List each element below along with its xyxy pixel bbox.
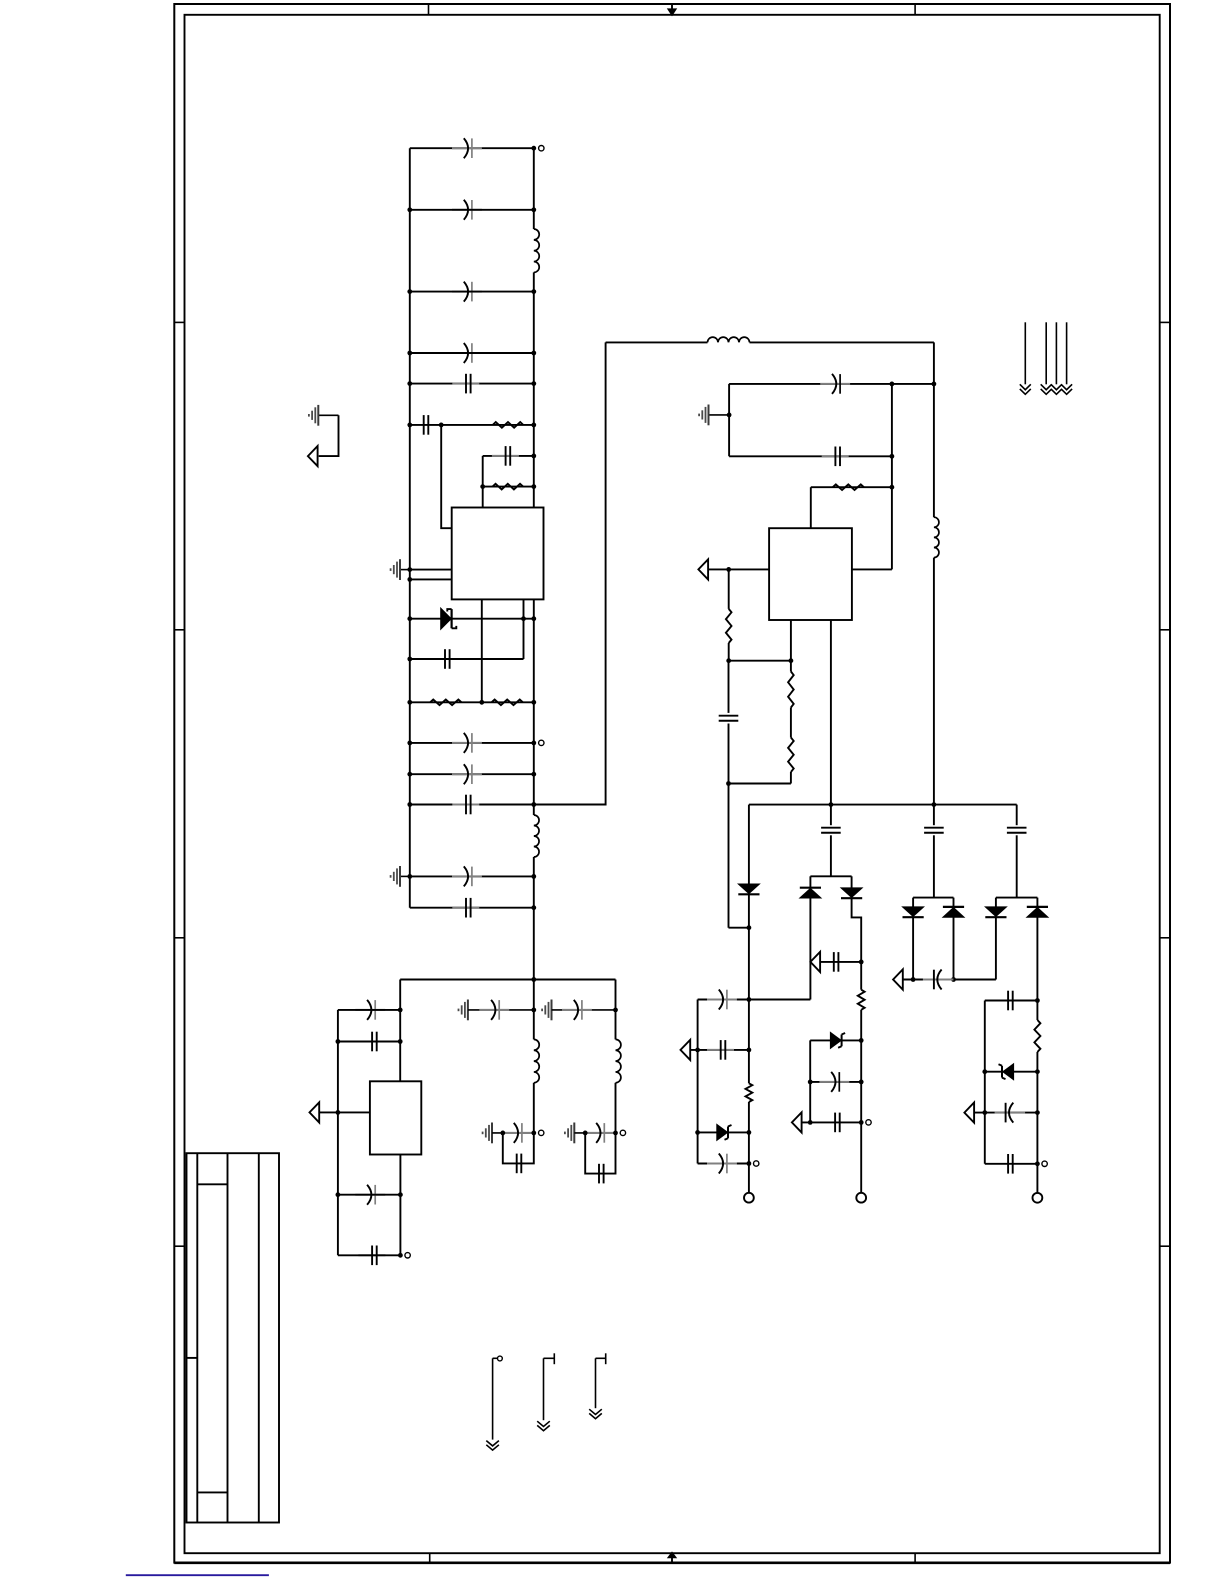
- port P7: [893, 969, 903, 989]
- node R3 left: [407, 700, 412, 705]
- node C4 right: [531, 351, 536, 356]
- capacitor C18: [820, 383, 850, 385]
- wire P3 to U2: [708, 568, 769, 570]
- capacitor CM2: [502, 1132, 532, 1134]
- capacitor C3: [452, 291, 482, 293]
- node C12 left: [407, 874, 412, 879]
- wire col3 rail: [1036, 1001, 1038, 1021]
- wire row portcap2: [903, 979, 996, 981]
- wire row M2: [492, 1132, 534, 1134]
- wire M stem lower: [533, 1083, 535, 1133]
- capacitor CN1: [562, 1009, 592, 1011]
- wire row R2: [483, 486, 534, 488]
- capacitor CM1: [479, 1009, 509, 1011]
- wire row C14: [338, 1009, 400, 1011]
- resistor R2: [493, 484, 524, 490]
- node C15 right: [398, 1039, 403, 1044]
- border tick left 2: [174, 629, 184, 631]
- capacitor C15: [358, 1041, 385, 1043]
- wire row C11: [410, 804, 534, 806]
- capacitor C1: [452, 147, 482, 149]
- wire vert 728 lower: [728, 661, 730, 713]
- node C15 left: [336, 1039, 341, 1044]
- capacitor C24v: [821, 827, 841, 829]
- node C18 a: [890, 382, 895, 387]
- node M2 mid: [500, 1131, 505, 1136]
- capacitor C5: [452, 383, 479, 385]
- wire fork3 L: [995, 898, 997, 907]
- hyperlink underline: [126, 1574, 269, 1576]
- node R6 right: [531, 423, 536, 428]
- wire row C12: [410, 875, 534, 877]
- wire branch748 a: [748, 805, 750, 884]
- capacitor C32: [995, 1112, 1026, 1114]
- node bus main: [531, 977, 536, 982]
- node top-right junction: [531, 146, 536, 151]
- wire row link: [729, 660, 791, 662]
- terminal T6: [1042, 1161, 1047, 1166]
- node C5 right: [531, 381, 536, 386]
- border tick top-right: [914, 4, 916, 15]
- resistor R9v: [746, 1083, 753, 1102]
- wire u3 left rail: [337, 1010, 339, 1255]
- wire fork3 R: [1036, 898, 1038, 907]
- wire U1 stub2: [523, 599, 525, 618]
- wire row C19: [729, 455, 892, 457]
- node C12 right: [531, 874, 536, 879]
- ground GND3: [318, 414, 338, 416]
- node portcap2 a: [911, 977, 916, 982]
- wire stub2 down: [523, 619, 525, 659]
- terminal T2: [539, 740, 544, 745]
- wire branch748 b: [748, 894, 750, 999]
- node C18 b: [932, 382, 937, 387]
- ground GND M1: [467, 1009, 469, 1011]
- off-page arrow A3: [1055, 322, 1057, 384]
- node M2 right: [531, 1131, 536, 1136]
- node C2 right: [531, 207, 536, 212]
- node gnd4: [727, 413, 732, 418]
- wire right rail U2: [933, 342, 935, 517]
- wire fork1 L: [809, 876, 811, 887]
- capacitor C9: [452, 742, 482, 744]
- resistor R3: [430, 700, 461, 706]
- node col2 r3: [859, 1120, 864, 1125]
- diode D4: [800, 887, 821, 889]
- port P1: [308, 446, 318, 466]
- node col2 r2: [859, 1080, 864, 1085]
- wire branch748 c: [748, 1000, 750, 1084]
- node col2 r1: [859, 1038, 864, 1043]
- terminal T5: [866, 1120, 871, 1125]
- node C17 right: [398, 1253, 403, 1258]
- capacitor C27: [834, 1113, 836, 1133]
- wire row col3-3: [974, 1112, 1037, 1114]
- border inner frame: [185, 15, 1160, 1553]
- node C8 left: [407, 657, 412, 662]
- wire vert 790: [790, 661, 792, 672]
- node C11 left: [407, 802, 412, 807]
- node portcap2 b: [951, 977, 956, 982]
- ic U2: [769, 528, 852, 620]
- wire u3 stem: [399, 980, 401, 1082]
- wire N loop: [585, 1133, 615, 1174]
- capacitor C20v: [719, 715, 739, 717]
- wire gnd3 to port: [319, 415, 339, 456]
- wire U2 stub1: [790, 620, 792, 661]
- wire row col1-1: [698, 999, 749, 1001]
- off-page arrow A1: [1024, 322, 1026, 384]
- wire row C18: [729, 383, 934, 385]
- wire lower right bus: [749, 804, 1017, 806]
- wire U1 stub1: [481, 599, 483, 702]
- node R2 left: [480, 484, 485, 489]
- wire row C10: [410, 773, 534, 775]
- node col1 r1: [747, 997, 752, 1002]
- wire row C13: [410, 907, 534, 909]
- capacitor C10: [452, 773, 482, 775]
- wire vert 891: [891, 384, 893, 570]
- wire row col3-1: [985, 1000, 1038, 1002]
- diode D5: [841, 888, 862, 898]
- wire row C16: [338, 1194, 401, 1196]
- node col1-2 a: [695, 1048, 700, 1053]
- capacitor C28v: [924, 827, 944, 829]
- node D1 row a: [521, 616, 526, 621]
- wire right rail mid: [533, 619, 535, 815]
- node C3 left: [407, 289, 412, 294]
- node portcap: [859, 960, 864, 965]
- border bottom emphasis: [174, 1562, 1170, 1565]
- wire fork2 L2: [912, 917, 914, 979]
- wire C11 to right circuit: [534, 342, 606, 804]
- node C7 right: [531, 454, 536, 459]
- wire fork2 stem: [933, 805, 935, 826]
- node C4 left: [407, 351, 412, 356]
- inductor LM: [534, 1039, 539, 1082]
- wire P2 to U3: [319, 1111, 370, 1113]
- wire row col2-2: [810, 1081, 861, 1083]
- wire row C9: [410, 742, 534, 744]
- diode D6 zener: [830, 1032, 841, 1048]
- node C13 right: [531, 905, 536, 910]
- ground GND N1: [551, 1009, 553, 1011]
- wire row portcap: [820, 961, 861, 963]
- wire diode row: [410, 618, 534, 620]
- wire fork2 L: [912, 898, 914, 907]
- wire N stem upper: [615, 980, 617, 1040]
- node N2 right: [613, 1131, 618, 1136]
- wire U1 pin a: [410, 569, 452, 571]
- diode D7: [903, 907, 924, 917]
- stub S3 chevrons: [589, 1409, 602, 1414]
- ground GND M2: [491, 1132, 493, 1134]
- node C16 right: [398, 1192, 403, 1197]
- capacitor C17: [358, 1254, 385, 1256]
- node P2 rail: [336, 1110, 341, 1115]
- diode D1 schottky: [441, 608, 452, 629]
- node col1 r4: [747, 1161, 752, 1166]
- inductor L3: [708, 337, 750, 342]
- wire row col1-3: [698, 1131, 749, 1133]
- node pin a: [407, 567, 412, 572]
- node C19 right: [890, 454, 895, 459]
- capacitor C23: [707, 1163, 737, 1165]
- node R3R4 mid: [479, 700, 484, 705]
- capacitor C31: [1007, 991, 1009, 1011]
- wire fork3 bar: [996, 897, 1038, 899]
- capacitor C22: [707, 1049, 734, 1051]
- terminal T1: [539, 146, 544, 151]
- diode D2: [738, 884, 759, 894]
- node R6 left: [407, 423, 412, 428]
- border tick left 1: [174, 321, 184, 323]
- resistor R10v: [858, 990, 865, 1010]
- wire U2 top pin: [810, 487, 812, 528]
- ground GND2: [400, 875, 410, 877]
- node M1: [531, 1008, 536, 1013]
- connector J2: [856, 1193, 866, 1203]
- wire col3 left rail: [984, 1001, 986, 1164]
- terminal TM: [539, 1130, 544, 1135]
- wire N stem lower: [615, 1083, 617, 1133]
- connector J3: [1033, 1193, 1043, 1203]
- ground GND N2: [573, 1132, 575, 1134]
- border tick left 3: [174, 937, 184, 939]
- wire row N2: [574, 1132, 615, 1134]
- node link b: [789, 658, 794, 663]
- wire row col2-1: [810, 1039, 861, 1041]
- title block: [187, 1153, 280, 1522]
- node P3 rail: [726, 567, 731, 572]
- wire col2 rail: [860, 962, 862, 990]
- wire fork2 R2: [953, 918, 955, 980]
- node col1 r3: [747, 1130, 752, 1135]
- capacitor C13: [452, 907, 479, 909]
- wire row C3: [410, 291, 534, 293]
- wire U1 stub3: [533, 599, 535, 618]
- capacitor C26: [819, 1081, 849, 1083]
- diode D8: [943, 906, 964, 908]
- diode D9: [985, 907, 1006, 917]
- wire U2 stub2: [830, 620, 832, 805]
- port P3: [698, 559, 708, 579]
- capacitor C19: [822, 455, 849, 457]
- port P4: [681, 1040, 691, 1060]
- wire row col3-4: [985, 1163, 1038, 1165]
- ic U1: [452, 508, 544, 600]
- node col3-2 a: [982, 1069, 987, 1074]
- capacitor C16: [355, 1194, 385, 1196]
- stub S2 wire: [543, 1358, 545, 1420]
- capacitor C7: [492, 455, 519, 457]
- port P6: [792, 1112, 802, 1132]
- node col1 r2: [747, 1048, 752, 1053]
- wire M loop: [503, 1133, 534, 1164]
- ground GND1: [400, 569, 410, 571]
- resistor R11v: [1034, 1020, 1040, 1052]
- wire U1 pin b: [410, 578, 452, 580]
- capacitor C30v: [1007, 827, 1027, 829]
- wire RC left vert: [482, 456, 484, 508]
- node C10 right: [531, 772, 536, 777]
- wire M stem upper: [533, 980, 535, 1040]
- capacitor C8: [444, 649, 446, 669]
- wire row col3-2: [985, 1071, 1038, 1073]
- node bus m: [829, 802, 834, 807]
- wire vert 729: [728, 384, 730, 456]
- wire col2 left rail: [809, 1040, 811, 1122]
- border tick right 2: [1160, 629, 1170, 631]
- wire top link: [606, 341, 708, 343]
- wire u3 bottom stub: [399, 1155, 401, 1256]
- node close: [726, 781, 731, 786]
- wire fork1 bar: [810, 875, 851, 877]
- capacitor C4: [452, 352, 482, 354]
- border tick top-left: [428, 4, 430, 15]
- stub S1 chevrons: [486, 1441, 499, 1446]
- wire row C15: [338, 1041, 400, 1043]
- diode D10: [1027, 906, 1048, 908]
- node C9 left: [407, 741, 412, 746]
- node N2 mid: [583, 1131, 588, 1136]
- resistor R8v: [788, 738, 794, 773]
- node N1: [613, 1008, 618, 1013]
- node pin b: [407, 577, 412, 582]
- terminal T3: [405, 1253, 410, 1258]
- wire fork1 stem: [830, 805, 832, 826]
- capacitor C12: [452, 875, 482, 877]
- capacitor C21: [707, 999, 737, 1001]
- stub S2 chevrons: [537, 1421, 550, 1426]
- connector J1: [744, 1193, 754, 1203]
- wire row C8: [410, 658, 524, 660]
- wire row col1-2: [690, 1049, 749, 1051]
- inductor LN: [616, 1039, 621, 1082]
- wire top rail: [410, 147, 534, 149]
- diode D11 zener: [1003, 1064, 1014, 1080]
- wire row M1: [468, 1009, 534, 1011]
- node C5 left: [407, 381, 412, 386]
- terminal TN: [620, 1130, 625, 1135]
- capacitor CN2: [584, 1132, 614, 1134]
- wire vert 728 upper: [728, 569, 730, 609]
- wire lower bus: [400, 979, 615, 981]
- node col3 r2: [1035, 1069, 1040, 1074]
- wire row C2: [410, 209, 534, 211]
- wire row col1-4: [698, 1163, 749, 1165]
- wire row C7: [483, 455, 534, 457]
- node C2 left: [407, 207, 412, 212]
- capacitor C6: [423, 415, 425, 435]
- border tick bottom-left: [429, 1553, 431, 1562]
- wire fork3 stem: [1016, 805, 1018, 826]
- resistor R5: [833, 484, 864, 490]
- node C11 right: [531, 802, 536, 807]
- wire right rail upper: [533, 148, 535, 229]
- wire row R6: [410, 424, 534, 426]
- node col2-2 a: [808, 1080, 813, 1085]
- node C3 right: [531, 289, 536, 294]
- node col1-3 a: [695, 1130, 700, 1135]
- node C16 left: [336, 1192, 341, 1197]
- terminal S1: [498, 1356, 503, 1361]
- node bus r: [932, 802, 937, 807]
- capacitor CN3: [598, 1164, 600, 1184]
- wire row R5: [811, 486, 892, 488]
- node R6 mid: [439, 423, 444, 428]
- wire fork1 R2: [852, 899, 862, 962]
- node col3 r1: [1035, 998, 1040, 1003]
- resistor R1: [493, 422, 524, 428]
- diode D3 zener: [717, 1124, 728, 1140]
- wire fork1 R: [851, 876, 853, 888]
- inductor L4: [934, 517, 939, 557]
- resistor R7v: [788, 672, 794, 708]
- ground GND4: [709, 414, 730, 416]
- capacitor CM3: [516, 1154, 518, 1174]
- node col3 r4: [1035, 1161, 1040, 1166]
- inductor L2: [534, 815, 539, 857]
- node j927: [747, 925, 752, 930]
- off-page arrow A4: [1066, 322, 1068, 384]
- wire row close: [729, 783, 791, 785]
- wire fork3 R2: [1036, 918, 1038, 1001]
- border tick right 4: [1160, 1245, 1170, 1247]
- stub S1 wire: [492, 1358, 494, 1439]
- wire row N1: [552, 1009, 616, 1011]
- node R2 right: [531, 484, 536, 489]
- wire fork2 R: [953, 898, 955, 907]
- border tick left 4: [174, 1245, 184, 1247]
- terminal T4: [754, 1161, 759, 1166]
- capacitor C29: [923, 979, 954, 981]
- port P2: [310, 1102, 320, 1122]
- border tick bottom-right: [914, 1553, 916, 1562]
- border tick right 3: [1160, 937, 1170, 939]
- wire row C5: [410, 383, 534, 385]
- node D1 left: [407, 616, 412, 621]
- node C14 right: [398, 1008, 403, 1013]
- node R4 right: [531, 700, 536, 705]
- port P5: [810, 952, 820, 972]
- wire fork2 bar: [913, 897, 953, 899]
- border center mark top: [671, 4, 673, 15]
- capacitor C2: [452, 209, 482, 211]
- node col3 r3: [1035, 1110, 1040, 1115]
- node col2-3 a: [808, 1120, 813, 1125]
- node col3-3 a: [982, 1110, 987, 1115]
- capacitor C25: [833, 952, 835, 972]
- port P8: [964, 1103, 974, 1123]
- inductor L1: [534, 229, 539, 272]
- stub S3 wire: [595, 1358, 597, 1408]
- node C10 left: [407, 772, 412, 777]
- wire row C4: [410, 352, 534, 354]
- border tick right 1: [1160, 321, 1170, 323]
- wire row C17: [338, 1254, 401, 1256]
- node link a: [726, 658, 731, 663]
- wire col1 left rail: [697, 1000, 699, 1164]
- capacitor C33: [1007, 1154, 1009, 1174]
- wire left rail: [409, 148, 411, 908]
- capacitor C11: [452, 804, 479, 806]
- wire row R3R4: [410, 701, 534, 703]
- wire row col2-3: [802, 1121, 862, 1123]
- ic U3: [370, 1081, 421, 1154]
- resistor R4: [492, 700, 523, 706]
- wire C6 to U1 pin: [441, 425, 452, 528]
